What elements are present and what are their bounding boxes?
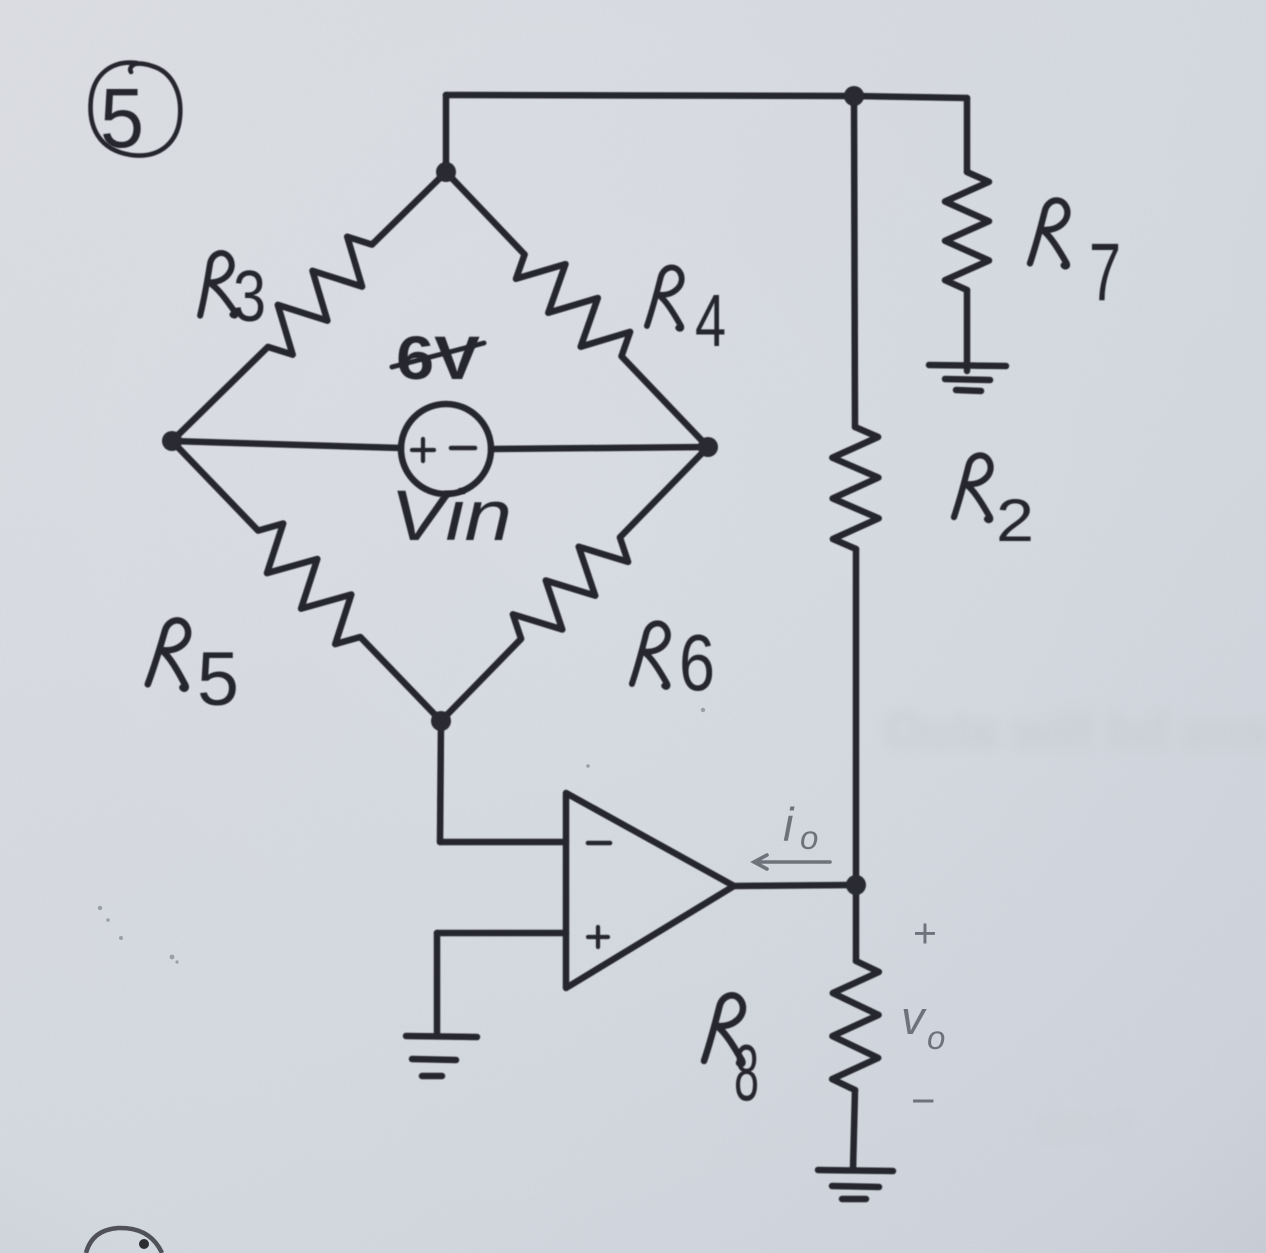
arrow io xyxy=(754,855,830,869)
svg-text:un rl: un rl xyxy=(1040,1102,1131,1149)
svg-text:4: 4 xyxy=(695,279,726,362)
resistor R2 xyxy=(832,427,878,549)
wire top rail xyxy=(446,95,967,98)
node dots xyxy=(162,86,866,895)
gray annotations xyxy=(783,798,945,1124)
op-amp U1 xyxy=(566,793,734,988)
resistor R5 arm xyxy=(172,441,441,721)
svg-text:−: − xyxy=(911,1077,936,1124)
wire bottom node drop xyxy=(440,721,441,842)
svg-text:v: v xyxy=(901,991,927,1044)
ground for op-amp + input xyxy=(406,1036,477,1076)
svg-text:+: + xyxy=(913,910,937,956)
node top junction xyxy=(844,86,864,106)
svg-text:Vin: Vin xyxy=(390,477,512,556)
wire R7 top lead xyxy=(964,98,971,172)
label R3 xyxy=(195,252,236,318)
wire noninverting drop xyxy=(434,933,441,1035)
svg-text:8: 8 xyxy=(734,1028,759,1117)
pencil specks xyxy=(98,708,705,964)
wire R7 bottom lead xyxy=(964,290,971,371)
svg-text:o: o xyxy=(800,819,818,856)
ground for R7 xyxy=(929,365,1006,391)
svg-text:6: 6 xyxy=(679,618,715,707)
wire R2 branch from junction xyxy=(854,96,855,427)
op-amp plus label xyxy=(588,927,608,947)
wire top-node drop xyxy=(443,95,450,172)
ground for R8 xyxy=(818,1170,893,1199)
svg-text:3: 3 xyxy=(233,257,266,337)
label R6 xyxy=(632,623,668,686)
resistor R4 arm xyxy=(446,172,708,447)
resistor R6 arm xyxy=(441,447,708,721)
wire noninverting input xyxy=(437,930,566,937)
resistor R3 arm xyxy=(172,172,446,441)
svg-text:i: i xyxy=(783,798,795,851)
label R2 xyxy=(954,455,991,520)
handwritten labels (ink) xyxy=(100,71,1121,1117)
ink xyxy=(91,63,1006,1199)
svg-text:5: 5 xyxy=(100,71,144,165)
svg-text:7: 7 xyxy=(1089,227,1121,318)
node output xyxy=(846,875,866,895)
op-amp minus label xyxy=(588,841,610,846)
svg-text:2: 2 xyxy=(996,487,1034,554)
node bridge left xyxy=(162,431,182,451)
node bridge top xyxy=(436,162,456,182)
source minus sign xyxy=(451,446,475,451)
label R4 xyxy=(647,267,682,328)
ghost show-through text xyxy=(885,703,1266,1149)
wire R8 top lead xyxy=(853,885,860,961)
resistor R8 xyxy=(832,961,879,1090)
source Vin circle xyxy=(401,404,491,494)
label R5 xyxy=(148,619,189,688)
problem number circle xyxy=(91,63,181,156)
label R7 xyxy=(1030,200,1067,266)
wire R8 bottom lead xyxy=(853,1090,855,1170)
wire R2 to output node xyxy=(853,549,860,885)
wire to inverting input xyxy=(440,839,566,846)
label R8 xyxy=(704,995,743,1064)
wire bridge mid right xyxy=(491,447,708,449)
svg-text:o: o xyxy=(927,1019,945,1056)
svg-text:ens bd lliw atuO: ens bd lliw atuO xyxy=(885,703,1266,759)
node bridge bottom xyxy=(431,711,451,731)
pencil arc bottom left xyxy=(86,1228,162,1253)
node bridge right xyxy=(698,437,718,457)
wire bridge mid left xyxy=(172,441,401,448)
svg-text:6V: 6V xyxy=(396,324,480,392)
resistor R7 xyxy=(945,172,989,290)
wire op-amp output xyxy=(734,885,856,886)
svg-text:5: 5 xyxy=(197,637,239,722)
source plus sign xyxy=(412,439,434,461)
strike line over 6V xyxy=(392,343,484,367)
